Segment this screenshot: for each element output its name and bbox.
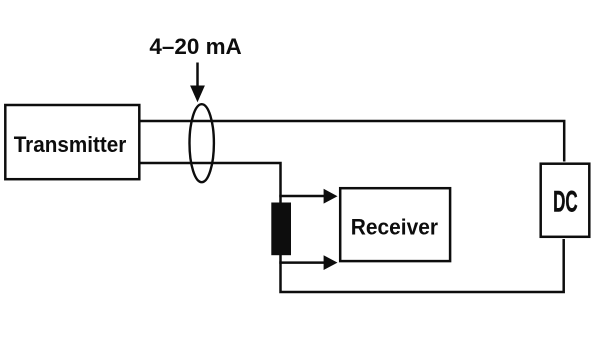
DC supply box (541, 164, 590, 237)
svg-text:4–20 mA: 4–20 mA (149, 34, 242, 59)
svg-text:Receiver: Receiver (351, 214, 439, 239)
svg-text:Transmitter: Transmitter (14, 132, 127, 157)
wire: transmitter bottom output down to resistor (140, 163, 281, 203)
svg-text:DC: DC (553, 185, 578, 218)
wire: below resistor down and return to DC supply - (281, 239, 564, 292)
arrowhead: bottom branch into receiver (324, 255, 338, 270)
resistor (loop sense resistor, filled) (271, 203, 291, 256)
current loop ellipse (190, 104, 214, 182)
arrowhead: top branch into receiver (324, 189, 338, 204)
wire: top branch from resistor to receiver input (279, 195, 330, 198)
arrow from label to loop (head) (190, 86, 205, 103)
wire: bottom branch from resistor to receiver input (279, 261, 330, 264)
receiver box (340, 188, 450, 261)
arrow from label to loop (shaft) (196, 63, 199, 88)
transmitter box (5, 105, 139, 179)
wire: transmitter top output to DC supply + (140, 121, 565, 162)
